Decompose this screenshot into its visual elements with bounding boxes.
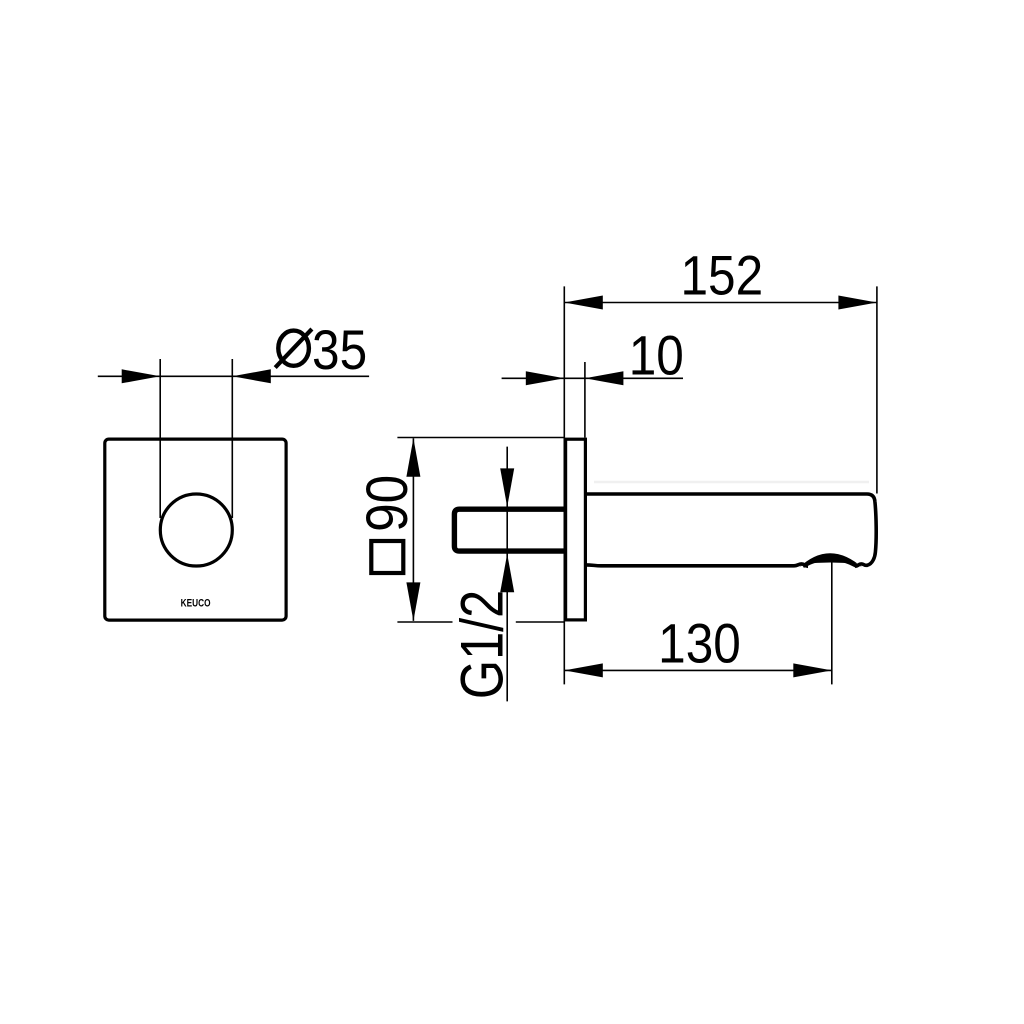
side view: wall plate bbox=[566, 439, 586, 620]
dimension Ø35: value label digits bbox=[312, 319, 367, 381]
dimension 90: top arrowhead bbox=[406, 438, 420, 477]
dimension 90: bottom extension line right segment bbox=[516, 621, 565, 623]
dimension G1/2: dimension line bbox=[506, 447, 508, 702]
dimension 152: right arrowhead bbox=[838, 296, 877, 310]
dimension Ø35: left extension line bbox=[159, 359, 161, 518]
dimension 90: dimension line bbox=[412, 438, 414, 621]
dimension 152: right extension line (spout tip) bbox=[876, 286, 878, 493]
front view: spout outlet circle bbox=[160, 494, 232, 566]
front view: KEUCO logo text bbox=[181, 597, 211, 609]
dimension 10: value label bbox=[629, 325, 684, 387]
dimension 10: right extension line (plate front face) bbox=[584, 362, 586, 438]
svg-text:G1/2: G1/2 bbox=[448, 590, 515, 699]
dimension Ø35: dimension line bbox=[98, 375, 369, 377]
side view: G1/2 threaded connector bbox=[454, 509, 565, 551]
dimension 130: right arrowhead bbox=[793, 663, 832, 677]
dimension 90: bottom extension line left segment bbox=[397, 621, 452, 623]
front view: square wall plate bbox=[105, 439, 286, 620]
dimension 130: left arrowhead bbox=[564, 663, 603, 677]
dimension 130: value label bbox=[658, 613, 741, 675]
side view: spout faint highlight line bbox=[594, 481, 869, 483]
svg-text:90: 90 bbox=[354, 475, 420, 532]
dimension G1/2: thread size label (rotated) bbox=[448, 590, 515, 699]
side view: spout outlet arch base arc bbox=[803, 559, 857, 567]
svg-text:10: 10 bbox=[629, 325, 684, 387]
dimension G1/2: lower arrowhead (pointing up) bbox=[500, 554, 514, 593]
svg-text:KEUCO: KEUCO bbox=[181, 597, 211, 609]
side view: spout outlet arch (aerator) bbox=[799, 553, 863, 567]
dimension 90: bottom arrowhead bbox=[406, 582, 420, 621]
dimension 90: value label (rotated) bbox=[354, 475, 420, 532]
dimension Ø35: right arrowhead bbox=[232, 369, 270, 383]
svg-text:152: 152 bbox=[680, 245, 763, 307]
dimension 130: dimension line bbox=[564, 669, 832, 671]
dimension 152: left extension line (wall face) bbox=[563, 286, 565, 684]
dimension Ø35: left arrowhead bbox=[122, 369, 161, 383]
dimension 90: square section symbol bbox=[371, 541, 403, 573]
dimension Ø35: value label diameter symbol bbox=[278, 331, 309, 366]
dimension 152: left arrowhead bbox=[564, 296, 603, 310]
svg-text:35: 35 bbox=[312, 319, 367, 381]
svg-text:130: 130 bbox=[658, 613, 741, 675]
dimension 10: dimension line bbox=[502, 377, 683, 379]
dimension 130: right extension line (outlet axis) bbox=[831, 558, 833, 684]
dimension G1/2: upper arrowhead (pointing down) bbox=[500, 468, 514, 507]
side view: spout body outline with wavy outlet profile bbox=[586, 494, 876, 566]
dimension 10: right outside arrowhead bbox=[585, 371, 624, 385]
dimension 152: value label bbox=[680, 245, 763, 307]
dimension 152: dimension line bbox=[564, 302, 877, 304]
dimension 90: top extension line bbox=[397, 437, 565, 439]
dimension Ø35: right extension line bbox=[231, 359, 233, 518]
dimension 10: left outside arrowhead bbox=[526, 371, 565, 385]
